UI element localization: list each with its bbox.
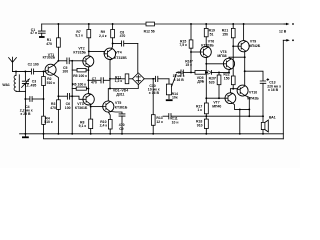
- svg-text:470: 470: [120, 34, 126, 38]
- capacitor C12: [176, 71, 180, 73]
- wire VT9 emitter output vertical: [244, 51, 247, 86]
- node rail R1: [57, 23, 59, 25]
- transistor VT7: [225, 93, 236, 104]
- wire tank down to rail: [24, 91, 26, 133]
- diode bridge VD1-VD4: [132, 73, 144, 85]
- capacitor C1: [41, 24, 43, 31]
- svg-text:VT5: VT5: [115, 101, 121, 105]
- resistor R19: [205, 24, 207, 28]
- svg-text:15 к: 15 к: [185, 63, 192, 67]
- svg-text:VT9: VT9: [250, 40, 256, 44]
- svg-text:9,1 к: 9,1 к: [79, 124, 87, 128]
- speaker BA1: [262, 116, 264, 122]
- ground main: [24, 134, 26, 137]
- svg-text:47 н: 47 н: [30, 31, 37, 35]
- svg-text:7,5 к: 7,5 к: [179, 43, 187, 47]
- svg-text:ВА1: ВА1: [269, 116, 276, 120]
- svg-text:12 В: 12 В: [279, 29, 287, 33]
- node coil top: [15, 71, 17, 73]
- wire top supply rail: [42, 23, 287, 25]
- resistor R7: [88, 24, 90, 30]
- svg-text:R6 100 к: R6 100 к: [72, 83, 86, 87]
- wire arrow minus terminal: [283, 39, 286, 41]
- wire bottom rail: [20, 133, 284, 135]
- wire VT7 emitter: [232, 103, 249, 110]
- wire bottom return line: [44, 134, 284, 139]
- svg-text:R12 56: R12 56: [144, 30, 155, 34]
- node R17 R18: [205, 115, 207, 117]
- capacitor C7: [87, 79, 89, 81]
- wire VT5 emitter to C9: [110, 111, 122, 113]
- wire VT7 base: [206, 97, 225, 99]
- transistor VT2: [83, 56, 94, 67]
- wire VT2 collector up: [89, 51, 90, 56]
- svg-text:КТ315Б: КТ315Б: [114, 56, 127, 60]
- node VT8 base tie: [205, 63, 207, 65]
- wire bridge bottom to VT5 collector: [108, 85, 138, 101]
- svg-text:100: 100: [62, 70, 68, 74]
- capacitor C13: [260, 81, 266, 83]
- resistor R10: [108, 112, 110, 119]
- capacitor C4: [24, 98, 26, 100]
- resistor R12: [146, 22, 155, 26]
- wire input: [13, 71, 32, 73]
- resistor R11: [110, 78, 132, 80]
- node rail R15: [190, 23, 192, 25]
- svg-text:WA1: WA1: [2, 83, 10, 87]
- coil WA1 magnetic antenna: [15, 72, 17, 76]
- transistor VT10: [237, 85, 248, 96]
- capacitor C6: [58, 95, 67, 97]
- resistor R9: [112, 24, 114, 30]
- svg-text:150: 150: [224, 76, 230, 80]
- svg-text:1 к: 1 к: [197, 108, 202, 112]
- wire VT3 emitter: [89, 104, 91, 119]
- node rail R7: [88, 23, 90, 25]
- svg-text:C9: C9: [119, 127, 123, 131]
- wire VT8 emitter: [229, 69, 231, 73]
- svg-text:КТ302Б: КТ302Б: [43, 56, 56, 60]
- node VT2 collector to VT4 base: [88, 50, 90, 52]
- resistor R4: [42, 116, 46, 124]
- node rail R19: [205, 23, 207, 25]
- transistor VT6: [200, 47, 211, 58]
- svg-text:х 16 В: х 16 В: [268, 88, 279, 92]
- antenna WA1: [9, 57, 17, 71]
- svg-text:КТ361Б: КТ361Б: [115, 106, 128, 110]
- svg-text:470: 470: [91, 81, 97, 85]
- svg-text:910: 910: [197, 123, 203, 127]
- svg-text:510 к: 510 к: [47, 81, 56, 85]
- capacitor C8: [112, 43, 114, 45]
- wire output to C13: [245, 71, 263, 81]
- wire VT1 emitter: [54, 75, 59, 97]
- wire VT6 collector: [206, 45, 208, 48]
- resistor R21: [232, 24, 234, 28]
- wire arrow plus terminal: [284, 23, 286, 25]
- wire VT7 collector: [230, 89, 233, 94]
- svg-text:C2 100: C2 100: [28, 63, 39, 67]
- svg-text:2,4 к: 2,4 к: [99, 34, 107, 38]
- svg-text:R5 100 к: R5 100 к: [73, 74, 87, 78]
- resistor R3: [57, 96, 59, 100]
- transistor VT9: [238, 41, 249, 52]
- svg-text:х 16 В: х 16 В: [174, 78, 185, 82]
- wire VT1 collector: [54, 61, 59, 65]
- resistor R22: [231, 76, 235, 85]
- transistor VT4: [104, 48, 115, 59]
- node VT5 base tie: [90, 106, 92, 108]
- ground at C1: [39, 36, 45, 38]
- resistor R5: [77, 68, 86, 72]
- svg-text:1,2 к: 1,2 к: [115, 79, 123, 83]
- resistor R20: [218, 71, 220, 73]
- svg-text:150: 150: [222, 32, 228, 36]
- wire VT6 emitter down: [206, 57, 207, 103]
- wire tank bottom: [16, 90, 25, 92]
- capacitor C10: [156, 76, 158, 81]
- svg-text:КТ361Б: КТ361Б: [75, 106, 88, 110]
- wire bias vertical to rail: [71, 96, 73, 134]
- node VT1 emitter junction: [57, 95, 59, 97]
- svg-text:10к: 10к: [172, 96, 178, 100]
- node rail R9: [112, 23, 114, 25]
- capacitor C5: [57, 60, 59, 62]
- svg-text:9,1 к: 9,1 к: [75, 33, 83, 37]
- transistor VT8: [223, 58, 234, 69]
- svg-text:МП42Б: МП42Б: [249, 44, 261, 48]
- wire VT4 emitter down: [110, 59, 112, 89]
- svg-text:Д311: Д311: [116, 93, 124, 97]
- resistor R2: [43, 72, 45, 77]
- svg-text:МП40: МП40: [212, 105, 221, 109]
- resistor R6: [76, 87, 86, 90]
- node base VT1 bias: [43, 71, 45, 73]
- node VT9 base: [232, 45, 234, 47]
- svg-text:470: 470: [50, 106, 56, 110]
- transistor VT1: [45, 64, 56, 75]
- capacitor C9: [119, 114, 125, 116]
- svg-text:МП38: МП38: [217, 54, 226, 58]
- resistor R15: [190, 24, 192, 40]
- wire VT3 collector: [88, 93, 90, 96]
- svg-text:х 16 В: х 16 В: [149, 91, 160, 95]
- capacitor C3 variable: [24, 71, 26, 73]
- diode VD5: [206, 71, 208, 73]
- svg-text:х 25 В: х 25 В: [20, 112, 31, 116]
- resistor R14 volume: [168, 79, 170, 84]
- svg-text:VT10: VT10: [249, 91, 257, 95]
- svg-text:510 к: 510 к: [44, 120, 53, 124]
- resistor R8: [89, 119, 93, 129]
- capacitor C11: [163, 115, 169, 117]
- svg-text:12 к: 12 к: [156, 120, 163, 124]
- svg-text:Д9Б: Д9Б: [197, 80, 204, 84]
- svg-text:470: 470: [46, 42, 52, 46]
- wire VT2 emitter down: [88, 66, 90, 94]
- svg-text:10 н: 10 н: [172, 121, 179, 125]
- wire right vertical negative feed: [282, 40, 284, 139]
- wire speaker feedback line: [206, 115, 263, 117]
- node rail R21: [232, 23, 234, 25]
- wire VT10 emitter down: [245, 95, 250, 116]
- svg-text:620: 620: [209, 80, 215, 84]
- svg-text:2,4 к: 2,4 к: [100, 124, 108, 128]
- ground at R14: [166, 99, 173, 101]
- wiper arrow R14: [172, 74, 177, 87]
- wire VT9 collector to rail: [244, 24, 246, 41]
- svg-text:VT4: VT4: [115, 50, 121, 54]
- resistor R13: [152, 79, 154, 116]
- resistor R17: [204, 103, 208, 114]
- wire VT10 base: [233, 88, 237, 90]
- svg-text:12..495: 12..495: [25, 83, 37, 87]
- wire VT8 collector to VT9 emitter: [229, 57, 245, 59]
- resistor R1: [57, 24, 59, 38]
- transistor VT3: [83, 94, 94, 105]
- svg-text:КТ315Б: КТ315Б: [73, 50, 86, 54]
- transistor VT5: [103, 101, 114, 112]
- node VT6 base: [190, 51, 192, 53]
- svg-text:51: 51: [210, 32, 214, 36]
- resistor R16: [195, 71, 206, 75]
- wire bridge right to C10: [144, 78, 155, 80]
- wire R5 R6 left vertical: [71, 61, 73, 96]
- svg-text:100: 100: [65, 106, 71, 110]
- resistor R18: [204, 119, 208, 128]
